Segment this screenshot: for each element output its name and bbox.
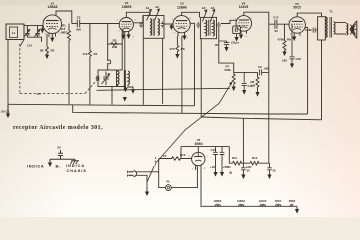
svg-text:A3: A3 (202, 6, 206, 10)
svg-text:C18: C18 (305, 28, 311, 32)
svg-text:270: 270 (170, 47, 175, 51)
wire IF2 cap line down (219, 28, 234, 72)
svg-text:30: 30 (247, 169, 251, 173)
IF1 primary tuning cap (139, 22, 143, 28)
wire IF1 secondary to V3 grid (164, 23, 173, 25)
IF2 primary tuning cap (196, 22, 200, 28)
wire grid line V1 to C2 (72, 23, 78, 25)
B- arrow below C21 (267, 175, 271, 180)
wire IF2 secondary to V4 grid (221, 20, 236, 23)
svg-text:47k: 47k (83, 52, 88, 56)
IF1 core (153, 19, 155, 36)
B- arrow below R7 (232, 87, 236, 92)
capacitor C21 (267, 163, 272, 174)
T1 core (330, 17, 332, 38)
tube V2 internals (122, 21, 131, 23)
svg-text:INDICA: INDICA (66, 164, 85, 168)
svg-text:receptor Aircastle modelo 301,: receptor Aircastle modelo 301, (13, 125, 103, 131)
oscillator coil T-osc primary (118, 70, 119, 86)
volume control R7 (232, 72, 235, 86)
antenna coil L1 inner box (10, 27, 18, 38)
svg-text:PL: PL (167, 180, 171, 184)
svg-text:470k: 470k (278, 38, 285, 42)
B- arrow below R8 (255, 92, 259, 97)
legend chassis symbol (71, 159, 79, 161)
osc coil feed from R3 box (118, 44, 123, 70)
osc box bottom to bus wire (111, 87, 113, 105)
bus B (73, 105, 308, 114)
oscillator padder cap (96, 76, 99, 81)
svg-text:12BE6: 12BE6 (214, 200, 222, 203)
B- arrow below R2 (45, 55, 49, 60)
svg-text:C16: C16 (296, 57, 302, 61)
wire T1 secondary to speaker (335, 23, 346, 34)
wire T1 bottom to bus C (321, 40, 323, 120)
B+ line (181, 147, 229, 159)
legend B- arrow (49, 159, 51, 162)
gang dashed link (19, 44, 21, 94)
wire V6 filament down to string (201, 172, 297, 206)
tube V1 envelope (43, 15, 62, 34)
B- arrow below C8 (224, 47, 228, 52)
IF2 primary coil (205, 20, 206, 36)
B- arrow below R9 (282, 52, 286, 57)
switch dashed link (154, 157, 156, 166)
wire antenna box top to V1 grid (24, 25, 43, 27)
V3 pin wire down to bus B (181, 36, 183, 113)
IF1 secondary tuning cap (161, 22, 165, 28)
svg-text:.005: .005 (264, 67, 270, 71)
resistor R12 (250, 161, 270, 165)
V2 cathode wire to bus (124, 32, 126, 91)
svg-text:180: 180 (282, 59, 287, 63)
tube V3 envelope (173, 16, 190, 33)
svg-text:T1: T1 (329, 10, 333, 14)
V5 cathode wire down to bus B (305, 28, 308, 115)
tube V4 internals (239, 19, 249, 21)
link line across (97, 88, 231, 90)
svg-text:A4: A4 (211, 6, 215, 10)
svg-text:50C5: 50C5 (293, 6, 301, 10)
speck (230, 172, 232, 174)
coupling capacitor C17 (275, 20, 277, 29)
IF1 trimmer arrow A2 (155, 10, 160, 20)
cathode cap C16 (290, 24, 295, 63)
svg-text:A1: A1 (146, 6, 150, 10)
wire V2 screen to IF1 top (126, 12, 150, 17)
filament station 12BA6 (239, 205, 244, 207)
svg-text:R4: R4 (94, 52, 98, 56)
wire volume top (234, 71, 258, 73)
grid resistor R1 (68, 24, 71, 105)
svg-text:R11: R11 (232, 156, 238, 160)
tuning capacitor C1-B (35, 26, 39, 38)
oscillator coil secondary (128, 71, 129, 85)
tube V2 envelope (119, 18, 133, 32)
legend capacitor (58, 150, 63, 159)
svg-text:50C5: 50C5 (275, 200, 282, 203)
R3 resistor in box bottom (111, 42, 118, 45)
svg-text:560: 560 (227, 166, 232, 169)
wire V5 plate to T1 top (297, 13, 321, 17)
oscillator coil core (124, 70, 125, 87)
legend horizontal wire (50, 158, 75, 160)
filter capacitor C19b (220, 147, 225, 172)
oscillator trimmer arrow (102, 75, 110, 84)
IF2 trimmer arrow A3 (203, 11, 207, 22)
resistor R4 (88, 24, 91, 105)
resistor R11 (233, 161, 244, 165)
B- arrow below R6 (175, 54, 179, 59)
trimmer arrow C1-A (24, 30, 29, 36)
svg-text:35W4: 35W4 (289, 200, 296, 203)
IF2 core (209, 20, 211, 36)
svg-text:C7: C7 (235, 41, 239, 45)
diode load box at V4 (233, 26, 241, 34)
svg-text:B-.: B-. (56, 164, 61, 168)
IF1 secondary coil (158, 19, 160, 35)
tube V6 envelope (192, 152, 205, 165)
tube V1 pins (49, 33, 56, 38)
svg-text:R9: R9 (287, 38, 291, 42)
svg-text:1M: 1M (251, 84, 256, 88)
B- arrow below C20 (241, 175, 245, 180)
wire IF1 box left-bottom to bus (142, 38, 144, 105)
B- arrow below C11 (242, 90, 246, 95)
svg-text:20: 20 (273, 169, 277, 173)
output transformer T1 box (318, 17, 326, 40)
wire IF1 right to bus (162, 38, 164, 104)
speaker (346, 23, 347, 35)
B- arrow left of V3 (171, 24, 173, 26)
svg-text:500k: 500k (225, 68, 232, 72)
B- arrow osc secondary (128, 85, 133, 90)
wire IF2 primary bottom to bus C (200, 39, 202, 117)
svg-text:12BA6: 12BA6 (237, 200, 245, 203)
trimmer arrow C1-B (35, 30, 40, 36)
tube V6 pins (196, 165, 201, 172)
bus A (AVC return) (8, 104, 195, 106)
svg-text:12BE6: 12BE6 (122, 5, 132, 9)
svg-text:12AV6: 12AV6 (259, 200, 267, 203)
wire V3 plate top rail to IF2 (182, 12, 200, 17)
IF2 secondary tuning cap (217, 22, 221, 28)
svg-text:.02: .02 (274, 29, 278, 33)
filter capacitor C19a (213, 147, 218, 172)
wire C2 to V2 grid (80, 23, 120, 25)
wire AC to pilot lamp (159, 172, 166, 188)
bus C (201, 117, 321, 120)
IF1 trimmer arrow A1 (147, 11, 152, 21)
V3 cathode resistor R6 (176, 36, 179, 54)
resistor R10 wire (159, 157, 192, 161)
svg-text:C1A: C1A (27, 44, 32, 48)
resistor R8 (256, 72, 259, 92)
coupling capacitor C9 (259, 69, 268, 75)
svg-text:68: 68 (40, 49, 44, 53)
IF transformer 2 box (200, 17, 216, 38)
svg-text:12BA6: 12BA6 (177, 5, 187, 9)
B- arrow at string end (296, 206, 298, 209)
volume wiper arrow and switch link (155, 84, 231, 164)
tube V3 internals (176, 20, 187, 22)
svg-text:R2: R2 (51, 49, 55, 53)
wire antenna box bottom to B- bus (7, 40, 9, 105)
antenna loop L1 outer box (6, 24, 24, 40)
AC line top wire (136, 159, 159, 172)
power switch blade (147, 166, 154, 182)
svg-text:R12: R12 (252, 156, 258, 160)
tuning capacitor C1-A (25, 26, 29, 38)
svg-text:C1: C1 (37, 92, 41, 96)
tube V4 envelope (236, 16, 252, 32)
tone capacitor C18 (310, 28, 318, 33)
svg-text:22M: 22M (112, 45, 117, 49)
svg-text:C19: C19 (211, 148, 217, 152)
T1 secondary winding (334, 22, 336, 34)
R3 box wiring (108, 24, 123, 45)
IF transformer 1 box (143, 16, 164, 39)
filament station 12AV6 (260, 205, 265, 207)
svg-text:C17: C17 (273, 16, 279, 20)
wire switch to B- arrow (146, 183, 148, 192)
IF2 secondary coil (213, 20, 214, 36)
gang diagonal to oscillator (85, 81, 97, 94)
svg-text:C2: C2 (77, 16, 81, 20)
capacitor C11 (242, 72, 247, 90)
wire V4 plate to top rail and down (244, 12, 269, 163)
svg-text:.05: .05 (214, 43, 219, 47)
tube V5 internals (292, 20, 303, 22)
chain junction to bus C (243, 118, 250, 163)
B- arrow below C16 (290, 64, 294, 69)
svg-text:500: 500 (76, 28, 81, 32)
tube V3 pins (178, 32, 185, 36)
B- arrow osc primary (118, 85, 126, 87)
svg-text:+40: +40 (210, 165, 215, 169)
oscillator grid coil hook (108, 44, 111, 70)
filament station 12BA6b (290, 205, 293, 207)
AC plug (134, 171, 137, 177)
svg-text:R6: R6 (181, 47, 185, 51)
wire V2 plate to IF1 (133, 16, 143, 23)
svg-text:A2: A2 (155, 5, 159, 9)
tube V1 internals (46, 20, 59, 22)
IF1 primary coil (150, 19, 152, 35)
wire V6 plate to B+ line (197, 147, 199, 153)
wire plate line to C17 to V5 grid (269, 23, 289, 25)
IF2 trimmer arrow A4 (211, 11, 215, 22)
T1 primary winding (325, 17, 327, 37)
V1 cathode resistor R2 (46, 34, 49, 55)
filament station 50C5 (276, 205, 281, 207)
svg-text:12AV6: 12AV6 (239, 5, 249, 9)
tube V5 envelope (289, 17, 305, 33)
filament station 12BE6 (215, 205, 220, 207)
oscillator tuning cap C1-C (103, 72, 108, 86)
svg-text:35W4: 35W4 (194, 142, 203, 146)
filter chain wire (229, 147, 232, 164)
tube V5 pins (294, 33, 300, 37)
tube V6 internals (194, 156, 202, 158)
wire V1 plate to top rail (56, 11, 72, 24)
svg-text:MEG: MEG (61, 30, 69, 34)
pilot lamp PL (166, 185, 172, 191)
coupling capacitor C2 (77, 20, 79, 28)
tube V4 pins (241, 31, 247, 35)
oscillator box (98, 70, 117, 87)
B- arrows below C19 (213, 172, 217, 177)
wire diode box to B- arrow (236, 34, 238, 37)
svg-text:CHASIS: CHASIS (67, 169, 87, 173)
B- return arrow near V1 grid (41, 26, 43, 29)
AVC capacitor C8 (219, 41, 230, 47)
svg-text:L1: L1 (12, 31, 16, 35)
AC line bottom wire to switch (136, 175, 147, 182)
svg-text:15: 15 (163, 154, 167, 158)
svg-text:C9: C9 (258, 65, 262, 69)
capacitor C20 (241, 163, 246, 174)
B- arrow below left wire (7, 104, 9, 113)
diode cap inside box (235, 27, 237, 32)
svg-text:05: 05 (58, 146, 62, 150)
grid resistor R9 (283, 24, 286, 51)
svg-text:.05 C1: .05 C1 (1, 110, 10, 114)
wire lamp to rectifier filament (171, 165, 197, 187)
svg-text:INDICA: INDICA (27, 164, 44, 168)
svg-text:12BA6: 12BA6 (48, 5, 58, 9)
tube V2 pins (123, 31, 128, 35)
svg-text:R3: R3 (113, 39, 117, 43)
wire V3 right side down to bus A (190, 23, 194, 105)
